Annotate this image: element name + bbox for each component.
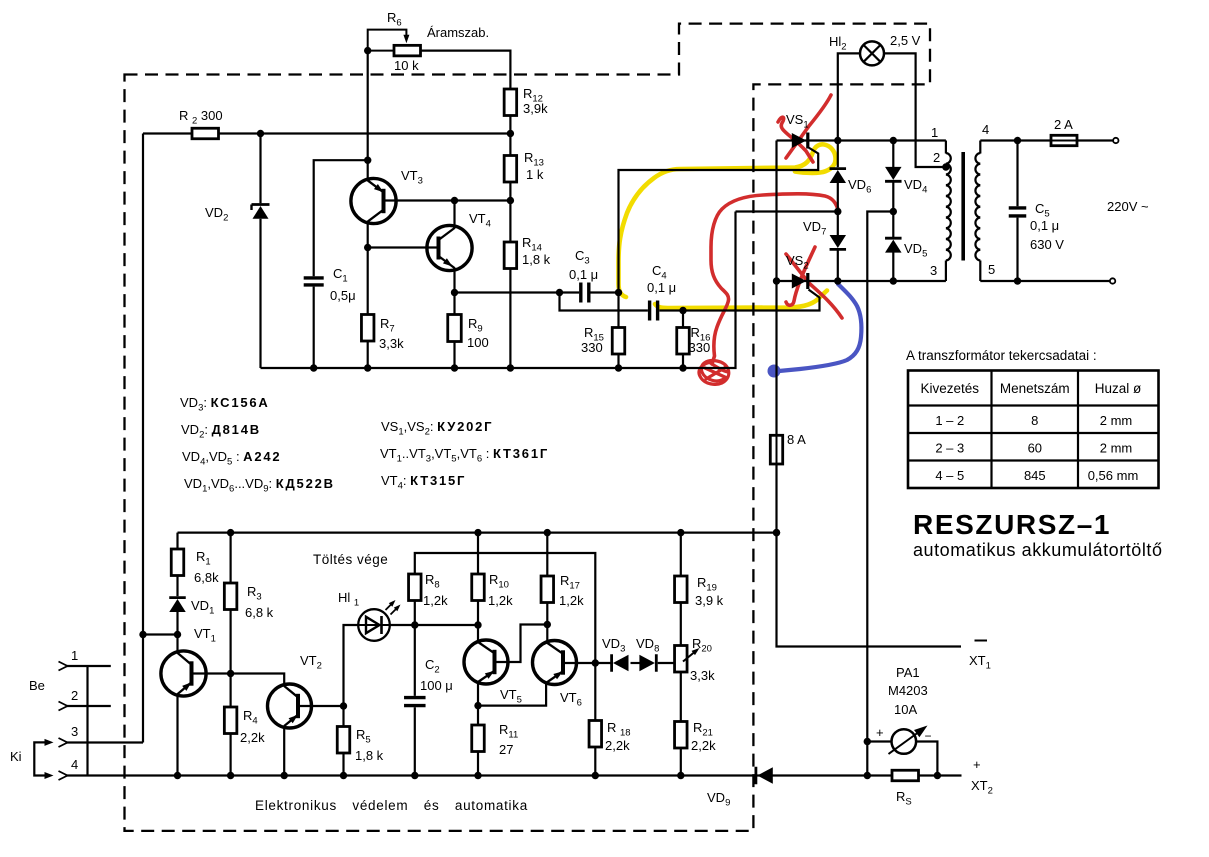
table cell 2mm row2 (1100, 441, 1133, 456)
wire VT6 base to VD3 node (563, 662, 612, 664)
transformer T1 left winding (pins 1-2-3) (946, 141, 951, 282)
wire input to R2 (143, 132, 192, 134)
fuse FU 8A (770, 435, 782, 464)
table cell 2-3 (935, 441, 964, 456)
label 330 R15 (581, 340, 603, 355)
label VD4 (904, 177, 927, 196)
terminal mains bottom (1110, 278, 1115, 283)
wire collector node to input line (143, 633, 178, 635)
label VT6 (560, 690, 582, 709)
table header Menetszam (1000, 381, 1070, 396)
wire pin4 to fuse (980, 139, 1051, 141)
wire ammeter left lead (867, 740, 891, 742)
label C2 (425, 657, 440, 676)
label Toltes vege (313, 552, 388, 567)
junction VD4/VD5 midpoint (890, 208, 897, 215)
junction R14 wire at rail (507, 364, 514, 371)
junction R5/HL1 node (340, 702, 347, 709)
label R14 (522, 235, 542, 254)
wire control plus rail (178, 531, 777, 533)
svg-text:6,8k: 6,8k (194, 570, 219, 585)
junction R2 line with R12/R13 (507, 130, 514, 137)
label VD8 (636, 636, 659, 655)
label R11 (499, 722, 518, 741)
wire fuse to mains terminal (1077, 139, 1113, 141)
resistor R15 (612, 328, 625, 355)
svg-text:4: 4 (982, 122, 989, 137)
wire VT1 emitter to rail (176, 694, 178, 776)
svg-text:0,5μ: 0,5μ (330, 288, 356, 303)
connector pin 4 (59, 771, 68, 780)
junction R8/C2 node (411, 621, 418, 628)
label 100u (420, 678, 453, 693)
junction C1 tap at VT3 emitter (364, 157, 371, 164)
table cell 2mm row1 (1100, 413, 1133, 428)
wire VS1 gate to C3/R15 node (619, 148, 819, 293)
table cell 056mm (1088, 468, 1139, 483)
svg-text:2,2k: 2,2k (240, 730, 265, 745)
wire C4 branch (560, 293, 648, 311)
wire VT4 emitter down (453, 268, 455, 293)
wire R8 top link to VT6 collector node (415, 553, 596, 663)
svg-text:Huzal ø: Huzal ø (1095, 381, 1142, 396)
junction VT4 collector at VT3 base line (451, 197, 458, 204)
svg-text:2,5 V: 2,5 V (890, 33, 921, 48)
junction R3/R4/VT1 base (227, 670, 234, 677)
svg-text:220V ~: 220V ~ (1107, 199, 1149, 214)
junction VT1 collector node (174, 631, 181, 638)
junction R15 at rail (615, 364, 622, 371)
label 3,9k (523, 101, 548, 116)
wire VD4 top lead (892, 141, 894, 168)
wire R12 to R13 (509, 116, 511, 156)
label R5 (356, 727, 371, 746)
wire VT1 base line to VT2 collector (231, 674, 285, 687)
svg-text:M4203: M4203 (888, 683, 928, 698)
junction R7 at rail (364, 364, 371, 371)
junction R18 at rail (592, 772, 599, 779)
wire R13 to R14 (509, 182, 511, 242)
zener diode VD2 (252, 205, 270, 219)
label R1 (196, 549, 211, 568)
svg-text:2 mm: 2 mm (1100, 441, 1133, 456)
table cell 1-2 (935, 413, 964, 428)
wire emitter node to C3 node (455, 291, 560, 293)
junction C3/C4 split node (556, 289, 563, 296)
label R13 (524, 150, 544, 169)
svg-text:1 k: 1 k (526, 167, 544, 182)
svg-text:1,2k: 1,2k (559, 593, 584, 608)
label R4 (243, 708, 258, 727)
junction R11 at rail (474, 772, 481, 779)
label 3,3k (379, 336, 404, 351)
wire R5 top lead (342, 706, 344, 727)
wire pin5 to mains terminal (980, 280, 1110, 282)
label 8 A (787, 432, 806, 447)
label 0,1 u C5 (1030, 218, 1059, 233)
svg-text:Ki: Ki (10, 749, 22, 764)
label 6,8k R1 (194, 570, 219, 585)
svg-text:Menetszám: Menetszám (1000, 381, 1070, 396)
wire VT3 base to R13/R14 junction (384, 199, 511, 201)
resistor R9 (448, 315, 462, 342)
label VD1 (191, 598, 214, 617)
Ki link bracket (34, 739, 53, 779)
resistor R2 (192, 128, 219, 139)
wire R10 bottom lead (477, 601, 479, 626)
wire R1 to VD1 (176, 576, 178, 597)
junction VT5/VT6 emitter node (474, 702, 481, 709)
junction R16 at rail (679, 364, 686, 371)
label pin1 (71, 648, 78, 663)
label plus XT2 (973, 757, 981, 772)
label R9 (468, 316, 483, 335)
junction rail to fuse line (773, 529, 780, 536)
junction R10/VT5 node (474, 621, 481, 628)
wire R16 top lead (682, 311, 684, 328)
parts list VT types (380, 446, 549, 465)
wire R6 right to R12 top (421, 51, 511, 89)
table cell 60 (1028, 441, 1042, 456)
svg-text:60: 60 (1028, 441, 1042, 456)
label 1,2k R8 (423, 593, 448, 608)
wire R21 to rail (680, 748, 682, 776)
diode VD9 on rail (756, 767, 773, 785)
connector pin 2 (59, 702, 111, 711)
terminal mains top (1113, 138, 1118, 143)
label pin 5 (988, 262, 995, 277)
svg-text:2,2k: 2,2k (605, 738, 630, 753)
wire VT4 collector up (453, 201, 455, 229)
capacitor C5 (1009, 208, 1027, 216)
svg-text:845: 845 (1024, 468, 1046, 483)
svg-text:3,3k: 3,3k (379, 336, 404, 351)
junction C5 bottom (1014, 277, 1021, 284)
label R16 (691, 325, 711, 344)
wire anode column VS1-VS2 (775, 141, 777, 282)
wire VT3 emitter column from R6 node (367, 51, 369, 180)
junction VT3 base line with R13/R14 (507, 197, 514, 204)
wire R15 top lead (617, 293, 619, 328)
svg-text:330: 330 (581, 340, 603, 355)
label C4 (652, 263, 667, 282)
wire R1 top lead (176, 533, 178, 549)
potentiometer R6 (394, 45, 421, 56)
svg-text:10 k: 10 k (394, 58, 419, 73)
svg-text:3,9k: 3,9k (523, 101, 548, 116)
transistor VT2 (268, 684, 312, 728)
wire to C3 (560, 291, 580, 293)
label Aramszab. (427, 25, 489, 40)
junction R21 at rail (677, 772, 684, 779)
wire top bridge row pin1 (777, 139, 946, 141)
wire VD7 bottom lead (837, 249, 839, 281)
junction VS2 anode (773, 277, 780, 284)
svg-text:1,2k: 1,2k (488, 593, 513, 608)
wire R18 to rail (594, 747, 596, 776)
junction C3/R15/VS1-gate node (615, 289, 622, 296)
wire C3 to R15 node (591, 291, 619, 293)
transistor VT5 (464, 640, 508, 684)
label 630 V (1030, 237, 1064, 252)
label 1,8 k (522, 252, 551, 267)
junction shunt right (934, 772, 941, 779)
label 3,3k (690, 668, 715, 683)
diode VD7 (830, 235, 847, 249)
wire VD5 bottom lead (892, 252, 894, 281)
thyristor VS1 (792, 133, 808, 149)
diode VD1 (169, 598, 186, 612)
thyristor VS2 (792, 273, 808, 289)
svg-text:2: 2 (71, 688, 78, 703)
wire VT2 emitter to rail (283, 726, 285, 776)
svg-text:+: + (876, 725, 884, 740)
svg-text:1: 1 (931, 125, 938, 140)
transistor VT1 (161, 651, 206, 696)
wire HL2 left lead (838, 53, 860, 140)
annotation red scribble ball (699, 361, 729, 385)
junction R19 top (677, 529, 684, 536)
wire R18 top lead (594, 663, 596, 721)
label XT2 (971, 778, 993, 797)
resistor R1 (171, 549, 184, 576)
label RS (896, 789, 912, 808)
transformer T1 right winding (pins 4-5) (975, 141, 980, 282)
svg-text:100: 100 (467, 335, 489, 350)
svg-text:Töltés vége: Töltés vége (313, 552, 388, 567)
resistor R19 (675, 576, 688, 603)
svg-text:2: 2 (933, 150, 940, 165)
label 2,2k R18 (605, 738, 630, 753)
wire VD4-VD5 link (892, 181, 894, 237)
label R3 (247, 584, 262, 603)
junction on input riser (139, 631, 146, 638)
capacitor C2 (404, 698, 426, 706)
resistor R21 (675, 722, 688, 749)
resistor R8 (409, 574, 422, 601)
label VD5 (904, 241, 927, 260)
svg-text:1,8 k: 1,8 k (522, 252, 551, 267)
label Ki (10, 749, 22, 764)
table header Kivezetes (921, 381, 980, 396)
label 1,2k R17 (559, 593, 584, 608)
label VD9 (707, 790, 730, 809)
resistor R10 (472, 574, 485, 601)
svg-text:Elektronikus védelem és automa: Elektronikus védelem és automatika (255, 798, 528, 813)
wire R6 wiper loop and left terminal (368, 30, 410, 51)
label HL2 (829, 34, 847, 53)
resistor R13 (504, 156, 517, 183)
svg-text:3,3k: 3,3k (690, 668, 715, 683)
svg-text:3: 3 (930, 263, 937, 278)
wire R10 top lead (477, 533, 479, 574)
label C5 (1035, 201, 1050, 220)
label XT1 (969, 653, 991, 672)
table cell 4-5 (935, 468, 964, 483)
label 10 k value of R6 (394, 58, 419, 73)
svg-text:4 – 5: 4 – 5 (935, 468, 964, 483)
label R10 (489, 572, 509, 591)
label pin4 (71, 757, 78, 772)
junction VT6 base / R18 node (592, 659, 599, 666)
wire ammeter right lead down to shunt (916, 742, 937, 776)
label VS1 (786, 112, 809, 131)
trimmer R20 (675, 646, 700, 673)
svg-text:1,8 k: 1,8 k (355, 748, 384, 763)
annotation red X over VS2 (786, 247, 842, 318)
svg-text:Áramszab.: Áramszab. (427, 25, 489, 40)
label 2,2k R21 (691, 738, 716, 753)
wire R14 down to common rail (509, 269, 511, 369)
junction C1 at rail (310, 364, 317, 371)
wire input riser from R2 line to pin 3 (142, 134, 144, 743)
svg-text:27: 27 (499, 742, 513, 757)
svg-text:3: 3 (71, 724, 78, 739)
parts list VD2 type (181, 422, 261, 441)
svg-text:2 – 3: 2 – 3 (935, 441, 964, 456)
label 0,1 u C3 (569, 267, 598, 282)
wire VT5 emitter down (477, 682, 479, 706)
wire emitter link to VT6 (478, 683, 546, 706)
label minus at ammeter (925, 729, 932, 743)
wire C2 to rail (414, 707, 416, 775)
svg-text:1,2k: 1,2k (423, 593, 448, 608)
label 2,2k R4 (240, 730, 265, 745)
wire HL1 to R8 node (390, 624, 415, 626)
wire R15 to rail (617, 354, 619, 368)
label pin 3 (930, 263, 937, 278)
diode VD3 (612, 654, 629, 672)
resistor R4 (224, 707, 237, 734)
connector pin 3 (59, 738, 144, 747)
wire VD6-VD7 link (837, 183, 839, 237)
annotation red trace from VD6/VD7 node (711, 194, 839, 364)
svg-text:0,1 μ: 0,1 μ (647, 280, 676, 295)
junction ammeter plus lead (864, 738, 871, 745)
wire R9 to rail (453, 342, 455, 369)
wire R8 bottom lead (414, 601, 416, 626)
parts list VD1 VD6 VD9 type (184, 476, 335, 495)
wire R8 node to VT5 node (415, 624, 478, 626)
label VD7 (803, 219, 826, 238)
caption Elektronikus vedelem es automatika (255, 798, 528, 813)
svg-text:2,2k: 2,2k (691, 738, 716, 753)
svg-text:+: + (973, 757, 981, 772)
label C3 (575, 248, 590, 267)
svg-text:Be: Be (29, 678, 45, 693)
wire R19 to R20 (680, 603, 682, 646)
resistor R16 (677, 328, 690, 355)
wire R17 bottom to VT6 collector (546, 603, 548, 643)
junction R4 at rail (227, 772, 234, 779)
label VD6 (848, 177, 871, 196)
transistor VT3 (351, 178, 396, 223)
transistor VT6 (533, 641, 577, 685)
label 1,2k R10 (488, 593, 513, 608)
junction C4/R16/VS2-gate node (679, 307, 686, 314)
label pin2 (71, 688, 78, 703)
svg-text:1: 1 (71, 648, 78, 663)
wire VT5 collector lead (477, 625, 479, 642)
label 3,9 k (695, 593, 724, 608)
parts list VT4 type (381, 473, 466, 492)
junction R10 top (474, 529, 481, 536)
label R8 (425, 572, 440, 591)
fuse FU 2A (1051, 135, 1077, 145)
label 10A (894, 702, 917, 717)
wire plus output to ammeter column (867, 212, 893, 776)
wire HL2 right lead to winding tap 2 (884, 53, 946, 167)
svg-text:3,9 k: 3,9 k (695, 593, 724, 608)
capacitor C3 (581, 283, 589, 303)
wire R5 to rail (342, 753, 344, 776)
wire VD3 to VD8 (631, 662, 644, 664)
label 100 (467, 335, 489, 350)
label VS2 (786, 253, 809, 272)
diode VD4 (885, 167, 902, 181)
label R6 (387, 10, 402, 29)
label 0,5 u (330, 288, 356, 303)
junction R5 at rail (340, 772, 347, 779)
junction shunt left at rail (864, 772, 871, 779)
wire R11 top lead (477, 706, 479, 725)
label VT3 (401, 168, 423, 187)
svg-text:1 – 2: 1 – 2 (935, 413, 964, 428)
svg-text:2 mm: 2 mm (1100, 413, 1133, 428)
wire C5 bottom lead (1016, 218, 1018, 281)
label Be (29, 678, 45, 693)
label R7 (380, 316, 395, 335)
junction R9 at rail (451, 364, 458, 371)
wire R16 to rail (682, 354, 684, 368)
junction VD5 bottom (890, 277, 897, 284)
junction winding tap pin 2 (942, 163, 949, 170)
junction R3 top (227, 529, 234, 536)
resistor R9 lead (453, 293, 455, 315)
wire bottom bridge row pin3 (777, 280, 946, 282)
svg-text:2 A: 2 A (1054, 117, 1073, 132)
label pin 4 (982, 122, 989, 137)
wire R2 to R12/R13 junction (219, 132, 511, 134)
svg-text:RESZURSZ–1: RESZURSZ–1 (913, 509, 1111, 540)
svg-text:4: 4 (71, 757, 78, 772)
wire C4 to R16 node (659, 309, 683, 311)
label R21 (693, 720, 713, 739)
junction VT4 emitter node (451, 289, 458, 296)
connector pin 1 (59, 662, 111, 671)
label 1,8 k R5 (355, 748, 384, 763)
label minus sign XT1 (975, 640, 988, 642)
label VD3 (602, 636, 625, 655)
table cell 845 (1024, 468, 1046, 483)
wire R4 to rail (230, 734, 232, 776)
label VT5 (500, 687, 522, 706)
transformer core (961, 152, 965, 261)
wire R11 to rail (477, 752, 479, 776)
label C1 (333, 266, 348, 285)
label R18 (607, 720, 631, 739)
wire HL1 branch (344, 625, 359, 706)
label pin 1 (931, 125, 938, 140)
label VT1 (194, 626, 216, 645)
label R17 (560, 573, 580, 592)
junction VD7 bottom (834, 277, 841, 284)
label 330 R16 (689, 340, 711, 355)
diode VD8 (639, 654, 656, 672)
annotation yellow trace VS2 gate path (655, 291, 827, 309)
wire C1 top branch (314, 160, 368, 276)
junction VD6/VD7 midpoint (834, 208, 841, 215)
